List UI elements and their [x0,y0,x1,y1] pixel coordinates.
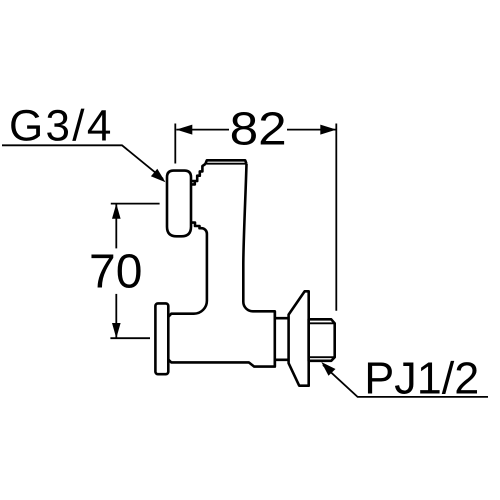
svg-text:70: 70 [89,246,142,299]
svg-text:82: 82 [230,103,287,155]
svg-text:G3/4: G3/4 [9,102,114,151]
svg-text:PJ1/2: PJ1/2 [364,353,479,404]
